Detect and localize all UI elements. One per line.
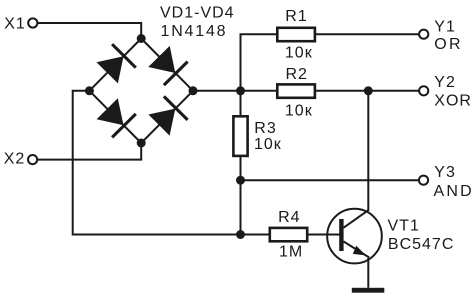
terminal Y1 xyxy=(419,30,428,39)
svg-text:AND: AND xyxy=(434,183,473,200)
diode VD top-left xyxy=(97,44,136,83)
ground xyxy=(352,288,385,293)
terminal X1 xyxy=(28,18,37,27)
svg-text:Y1: Y1 xyxy=(434,19,456,36)
svg-text:10к: 10к xyxy=(254,136,282,153)
node bridge top xyxy=(137,34,146,43)
diode VD bottom-right xyxy=(148,96,187,135)
node XOR/collector node xyxy=(364,86,373,95)
terminal Y3 xyxy=(419,176,428,185)
svg-text:10к: 10к xyxy=(285,103,313,120)
svg-text:1M: 1M xyxy=(279,244,303,261)
svg-text:10к: 10к xyxy=(285,45,313,62)
svg-text:OR: OR xyxy=(434,36,462,53)
wire R2 to Y2 xyxy=(315,90,419,92)
svg-text:VT1: VT1 xyxy=(388,218,420,235)
svg-text:R1: R1 xyxy=(285,8,307,25)
svg-text:R3: R3 xyxy=(254,120,276,137)
wire left node to R4 xyxy=(73,91,270,235)
terminal X2 xyxy=(28,155,37,164)
svg-text:X1: X1 xyxy=(4,15,26,32)
wire bridge side bottom-right xyxy=(141,91,193,143)
svg-text:R2: R2 xyxy=(286,66,308,83)
svg-text:VD1-VD4: VD1-VD4 xyxy=(160,5,235,22)
resistor body R2 xyxy=(277,84,315,97)
wire R3 bottom down xyxy=(240,156,242,235)
wire X2 to bridge bottom xyxy=(37,143,141,160)
wire emitter down to ground xyxy=(367,258,369,288)
node bus R1/R2/R3 xyxy=(236,86,245,95)
wire R1 to Y1 xyxy=(315,33,419,35)
wire bus up to R1 xyxy=(241,34,278,91)
node bridge bottom xyxy=(137,139,146,148)
wire bridge side top-right xyxy=(141,39,193,91)
wire R4 to base xyxy=(307,234,343,236)
node R4 node xyxy=(236,230,245,239)
wire bridge side bottom-left xyxy=(89,91,141,143)
svg-text:R4: R4 xyxy=(278,209,300,226)
wire X1 to bridge top xyxy=(37,23,141,39)
wire right node to R2 xyxy=(193,90,277,92)
svg-text:1N4148: 1N4148 xyxy=(161,23,228,40)
wire bus down to R3 xyxy=(240,91,242,117)
svg-text:Y3: Y3 xyxy=(434,164,456,181)
wire collector up to XOR line xyxy=(367,91,369,211)
svg-text:XOR: XOR xyxy=(434,92,472,109)
resistor body R1 xyxy=(277,28,315,41)
wire bridge side top-left xyxy=(89,39,141,91)
resistor body R4 xyxy=(270,228,307,241)
diode VD bottom-left xyxy=(97,98,136,137)
wire junction to Y3 xyxy=(241,179,420,181)
transistor VT1 xyxy=(327,209,382,264)
diode VD top-right xyxy=(148,46,187,85)
svg-text:BC547C: BC547C xyxy=(388,236,454,253)
resistor body R3 xyxy=(233,116,247,156)
svg-text:X2: X2 xyxy=(4,151,26,168)
node AND node xyxy=(236,176,245,185)
terminal Y2 xyxy=(419,86,428,95)
node bridge right xyxy=(189,86,198,95)
node bridge left xyxy=(85,86,94,95)
svg-text:Y2: Y2 xyxy=(434,74,456,91)
